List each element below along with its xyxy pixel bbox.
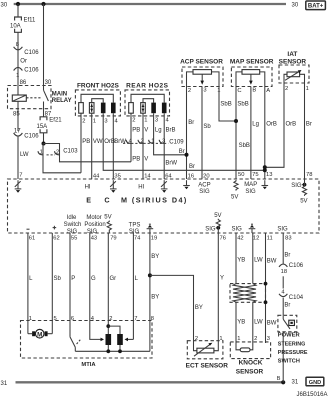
svg-text:10A: 10A — [10, 23, 21, 29]
svg-text:7: 7 — [19, 172, 22, 178]
svg-text:Y: Y — [220, 275, 224, 281]
svg-text:Ef21: Ef21 — [49, 117, 62, 123]
svg-text:3: 3 — [104, 118, 107, 124]
svg-text:HI: HI — [138, 184, 144, 190]
svg-text:78: 78 — [306, 172, 312, 178]
svg-text:REAR HO2S: REAR HO2S — [126, 82, 169, 89]
svg-text:15A: 15A — [37, 124, 48, 130]
svg-text:1: 1 — [29, 316, 32, 322]
svg-text:76: 76 — [220, 235, 226, 241]
svg-text:3: 3 — [267, 336, 270, 342]
svg-text:TPS: TPS — [129, 223, 141, 229]
svg-text:B: B — [252, 88, 256, 94]
svg-text:64: 64 — [165, 174, 172, 180]
svg-text:1: 1 — [40, 150, 43, 156]
svg-text:SIG: SIG — [291, 183, 302, 189]
svg-text:43: 43 — [91, 235, 97, 241]
svg-text:MTIA: MTIA — [81, 362, 96, 368]
svg-text:POWER: POWER — [278, 333, 301, 339]
svg-text:YB: YB — [237, 320, 245, 326]
svg-text:BrW: BrW — [114, 139, 126, 145]
svg-text:SWITCH: SWITCH — [278, 359, 300, 365]
svg-text:79: 79 — [110, 235, 116, 241]
svg-text:BY: BY — [195, 305, 203, 311]
svg-text:5V: 5V — [300, 199, 307, 205]
svg-text:3: 3 — [203, 88, 206, 94]
svg-text:1: 1 — [237, 336, 240, 342]
svg-text:C104: C104 — [289, 295, 304, 301]
svg-text:5V: 5V — [104, 214, 111, 220]
svg-text:2: 2 — [254, 336, 257, 342]
svg-text:5V: 5V — [231, 195, 238, 201]
svg-text:Motor: Motor — [86, 215, 101, 221]
svg-text:2: 2 — [141, 138, 144, 144]
svg-text:SENSOR: SENSOR — [279, 58, 307, 65]
svg-text:IAT: IAT — [287, 51, 297, 58]
svg-text:14: 14 — [144, 174, 151, 180]
svg-text:MAP: MAP — [244, 182, 257, 188]
svg-text:1: 1 — [93, 118, 96, 124]
svg-text:VW: VW — [93, 139, 103, 145]
svg-text:16: 16 — [188, 174, 194, 180]
svg-text:1: 1 — [144, 118, 147, 124]
svg-text:SIG: SIG — [245, 189, 256, 195]
svg-text:Ef11: Ef11 — [24, 18, 37, 24]
svg-text:8: 8 — [151, 316, 154, 322]
svg-text:BY: BY — [151, 254, 159, 260]
svg-text:SbB: SbB — [239, 143, 250, 149]
svg-text:13: 13 — [266, 172, 272, 178]
svg-text:P: P — [71, 276, 75, 282]
svg-text:C106: C106 — [24, 68, 39, 74]
svg-text:ACP SENSOR: ACP SENSOR — [180, 58, 223, 65]
svg-text:PRESSURE: PRESSURE — [278, 350, 308, 356]
svg-text:SIG: SIG — [67, 229, 78, 235]
svg-text:Br: Br — [284, 303, 290, 309]
svg-text:SENSOR: SENSOR — [236, 368, 264, 375]
svg-text:BW: BW — [267, 321, 277, 327]
svg-text:Switch: Switch — [64, 222, 82, 228]
svg-text:C: C — [104, 195, 109, 204]
svg-text:RELAY: RELAY — [52, 98, 72, 104]
svg-text:SIG: SIG — [205, 227, 216, 233]
svg-text:Idle: Idle — [67, 215, 77, 221]
svg-text:Gr: Gr — [110, 276, 117, 282]
svg-text:50: 50 — [238, 172, 244, 178]
svg-text:44: 44 — [93, 174, 100, 180]
svg-text:75: 75 — [252, 172, 258, 178]
svg-text:HI: HI — [85, 184, 91, 190]
svg-text:2: 2 — [56, 150, 59, 156]
svg-text:74: 74 — [134, 235, 141, 241]
svg-text:5V: 5V — [214, 213, 221, 219]
svg-text:12: 12 — [253, 235, 259, 241]
svg-text:42: 42 — [237, 235, 243, 241]
svg-text:2: 2 — [285, 86, 288, 92]
svg-text:2: 2 — [82, 118, 85, 124]
svg-text:55: 55 — [71, 235, 77, 241]
svg-text:Br: Br — [306, 121, 312, 127]
svg-text:3: 3 — [155, 118, 158, 124]
svg-text:SIG: SIG — [87, 229, 98, 235]
svg-text:GND: GND — [309, 380, 321, 386]
svg-text:LW: LW — [254, 320, 263, 326]
svg-text:6: 6 — [71, 316, 74, 322]
svg-text:C106: C106 — [24, 133, 39, 139]
svg-text:BY: BY — [151, 294, 159, 300]
svg-text:Br: Br — [179, 149, 185, 155]
svg-text:SIG: SIG — [232, 227, 243, 233]
svg-text:Br: Br — [189, 164, 195, 170]
svg-text:V: V — [144, 127, 148, 133]
svg-text:11: 11 — [267, 235, 273, 241]
svg-text:LW: LW — [254, 257, 263, 263]
svg-text:ACP: ACP — [198, 182, 210, 188]
svg-text:3: 3 — [162, 138, 165, 144]
svg-text:MAIN: MAIN — [52, 92, 67, 98]
svg-text:31: 31 — [292, 380, 299, 386]
svg-text:A: A — [266, 88, 270, 94]
svg-text:B: B — [277, 376, 281, 382]
svg-text:Or: Or — [20, 59, 27, 65]
svg-text:SbB: SbB — [237, 102, 248, 108]
svg-text:PB: PB — [132, 127, 140, 133]
svg-text:YB: YB — [237, 257, 245, 263]
svg-text:OrB: OrB — [104, 139, 115, 145]
svg-text:30: 30 — [292, 3, 299, 9]
svg-text:85: 85 — [13, 111, 20, 117]
svg-text:C106: C106 — [24, 50, 39, 56]
svg-text:35: 35 — [114, 174, 120, 180]
svg-text:61: 61 — [29, 235, 35, 241]
svg-text:J6B15016A: J6B15016A — [297, 392, 328, 398]
svg-text:M (SIRIUS D4): M (SIRIUS D4) — [121, 195, 188, 204]
svg-text:Br: Br — [188, 120, 194, 126]
svg-text:1: 1 — [217, 88, 220, 94]
svg-text:E: E — [86, 195, 91, 204]
svg-text:17: 17 — [14, 128, 21, 134]
svg-text:SIG: SIG — [199, 189, 210, 195]
svg-text:2: 2 — [109, 316, 112, 322]
svg-text:8: 8 — [16, 42, 19, 48]
svg-text:30: 30 — [1, 3, 8, 9]
svg-text:31: 31 — [1, 381, 8, 387]
svg-text:Lg: Lg — [155, 127, 162, 133]
svg-text:Br: Br — [284, 252, 290, 258]
svg-text:C: C — [237, 88, 241, 94]
svg-text:MAP SENSOR: MAP SENSOR — [230, 58, 274, 65]
svg-text:C109: C109 — [169, 139, 184, 145]
svg-text:G: G — [91, 276, 96, 282]
svg-text:C106: C106 — [289, 263, 304, 269]
svg-text:Sb: Sb — [54, 276, 62, 282]
svg-text:7: 7 — [134, 316, 137, 322]
svg-text:1: 1 — [306, 86, 309, 92]
svg-text:2: 2 — [132, 118, 135, 124]
svg-text:2: 2 — [188, 88, 191, 94]
svg-text:62: 62 — [53, 235, 59, 241]
svg-text:19: 19 — [151, 235, 157, 241]
svg-text:OrB: OrB — [286, 121, 297, 127]
svg-text:83: 83 — [285, 235, 291, 241]
svg-text:2: 2 — [195, 336, 198, 342]
svg-text:STEERING: STEERING — [278, 341, 306, 347]
svg-text:LW: LW — [20, 152, 29, 158]
svg-text:ECT SENSOR: ECT SENSOR — [186, 362, 229, 369]
svg-text:V: V — [144, 157, 148, 163]
svg-text:Sb: Sb — [203, 124, 211, 130]
svg-text:Position: Position — [84, 222, 105, 228]
svg-text:M: M — [37, 331, 42, 338]
svg-text:1: 1 — [219, 336, 222, 342]
svg-text:BW: BW — [267, 258, 277, 264]
svg-text:BrB: BrB — [166, 127, 176, 133]
svg-text:1: 1 — [16, 73, 19, 79]
svg-text:SIG: SIG — [277, 227, 288, 233]
svg-text:Lg: Lg — [252, 121, 259, 127]
svg-text:KNOCK: KNOCK — [239, 360, 263, 367]
svg-text:BrW: BrW — [165, 160, 177, 166]
svg-text:20: 20 — [203, 174, 209, 180]
svg-text:C103: C103 — [63, 149, 78, 155]
svg-text:PB: PB — [132, 157, 140, 163]
svg-text:30: 30 — [45, 80, 52, 86]
svg-text:18: 18 — [281, 269, 287, 275]
svg-text:FRONT HO2S: FRONT HO2S — [77, 82, 120, 89]
svg-text:OrB: OrB — [266, 121, 277, 127]
svg-text:BAT+: BAT+ — [308, 3, 324, 9]
svg-text:5: 5 — [54, 316, 57, 322]
svg-text:PB: PB — [82, 139, 90, 145]
svg-text:SIG: SIG — [129, 229, 140, 235]
svg-text:SbB: SbB — [220, 102, 231, 108]
svg-text:1: 1 — [151, 138, 154, 144]
